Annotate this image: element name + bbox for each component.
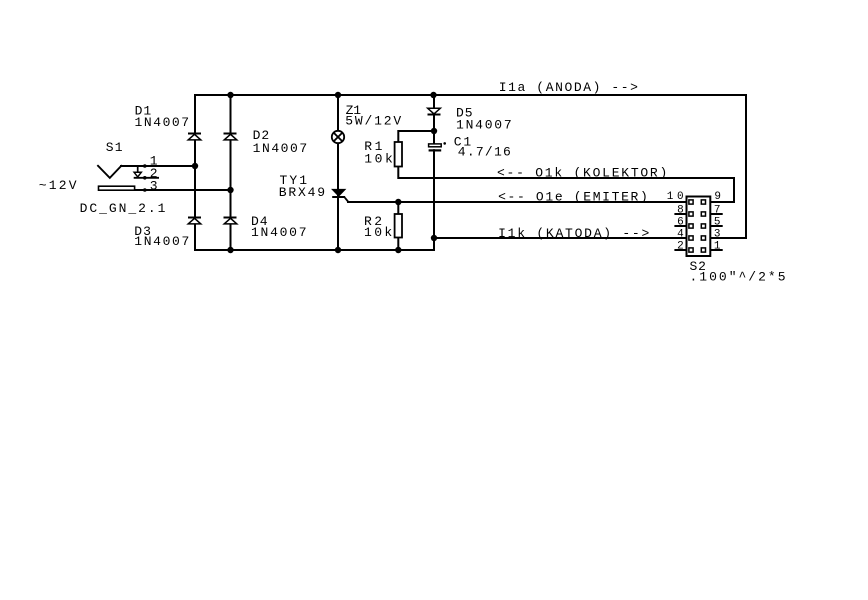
diode D2 (224, 134, 237, 140)
svg-text:I1a (ANODA) -->: I1a (ANODA) --> (499, 80, 638, 95)
svg-text:<-- O1e (EMITER): <-- O1e (EMITER) (498, 190, 648, 205)
wire right bridge vertical (D2/D4) (230, 95, 232, 250)
svg-text:4: 4 (677, 228, 684, 240)
svg-text:6: 6 (677, 216, 684, 228)
TY1 gate lead (345, 198, 349, 202)
node bottom bus / TY1 (335, 247, 341, 253)
diode D3 (188, 218, 201, 224)
wire D5/C1 vertical lower (433, 150, 435, 250)
svg-text:1: 1 (714, 240, 721, 252)
wire R2 top lead (397, 202, 399, 214)
svg-text:2: 2 (677, 240, 684, 252)
wire R1 top lead (398, 131, 434, 142)
S1 pin dot 2 (143, 176, 147, 180)
svg-text:3: 3 (714, 228, 721, 240)
wire top bus (195, 94, 746, 96)
svg-text:<-- O1k (KOLEKTOR): <-- O1k (KOLEKTOR) (497, 166, 667, 181)
wire S1 pin1 to bridge (121, 165, 195, 167)
svg-text:.100"^/2*5: .100"^/2*5 (690, 269, 786, 284)
node O1e / R2 (395, 199, 401, 205)
S1 switch pin2 arm (137, 166, 139, 172)
svg-text:8: 8 (677, 204, 684, 216)
wire O1e emiter run (348, 201, 687, 203)
svg-text:DC_GN_2.1: DC_GN_2.1 (80, 201, 166, 216)
wire I1a anoda run (710, 95, 746, 238)
lamp Z1 (332, 131, 344, 143)
S1 pin dot 1 (143, 164, 147, 168)
resistor R2 (395, 214, 402, 238)
svg-text:10k: 10k (364, 151, 393, 166)
node top bus / D2 (227, 92, 233, 98)
S1 tip contact V (98, 166, 121, 178)
svg-text:I1k (KATODA) -->: I1k (KATODA) --> (498, 226, 649, 241)
wire Z1/TY1 vertical (337, 95, 339, 250)
node S1 pin3 / bridge (227, 187, 233, 193)
svg-text:BRX49: BRX49 (279, 185, 325, 200)
svg-text:10k: 10k (364, 225, 392, 240)
capacitor C1 (429, 142, 446, 151)
S2 pin number labels (667, 191, 721, 252)
node top bus / D5 (430, 92, 436, 98)
wire R2 bottom lead (397, 238, 399, 251)
junction node dots (192, 92, 437, 253)
wire left bridge vertical (D1/D3) (194, 95, 196, 250)
diode D5 (428, 108, 441, 114)
svg-text:S1: S1 (106, 140, 123, 155)
connector S1 (DC power jack) (98, 164, 159, 192)
wire I1k katoda run (434, 237, 687, 239)
S1 pin2 stub (134, 177, 159, 179)
S2 right pin stubs (7,5,1) (710, 214, 722, 250)
C1 polarity mark (443, 142, 446, 145)
S2 pin squares column 1 (689, 200, 693, 252)
svg-text:7: 7 (714, 204, 721, 216)
svg-text:9: 9 (714, 191, 721, 203)
node R1 top / C1 line (431, 128, 437, 134)
S1 pin dot 3 (143, 188, 147, 192)
S2 left pin stubs (8,6,2) (674, 214, 686, 250)
diode D4 (224, 218, 237, 224)
node top bus / Z1 (335, 92, 341, 98)
S2 pin squares column 2 (701, 200, 705, 252)
svg-text:5: 5 (714, 216, 721, 228)
S1 sleeve bar (99, 186, 135, 190)
wire D5/C1 vertical upper (433, 95, 435, 145)
wire bottom bus (195, 249, 434, 251)
resistor R1 (395, 142, 402, 167)
node bottom bus / D4 (227, 247, 233, 253)
wire S1 pin3 to bridge (135, 189, 231, 191)
svg-text:0: 0 (677, 191, 684, 203)
svg-text:3: 3 (150, 178, 158, 193)
connector S2 pin header body (687, 197, 711, 257)
node S1 pin1 / bridge (192, 163, 198, 169)
diode D1 (188, 134, 201, 140)
S1 switch pin2 arrowhead (134, 172, 141, 177)
node bottom bus / R2 (395, 247, 401, 253)
thyristor TY1 (332, 189, 348, 202)
node I1k / C1 line (431, 235, 437, 241)
wire O1k kolektor run (398, 167, 734, 203)
svg-text:1: 1 (667, 191, 674, 203)
